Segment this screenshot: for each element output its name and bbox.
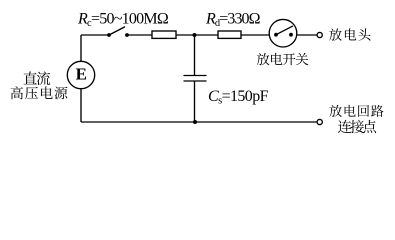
label discharge switch "放电开关" [257, 53, 309, 65]
node B junction dot on bottom rail [193, 120, 197, 124]
wire left rail bottom: source E down to bottom rail [80, 89, 82, 122]
discharge switch S2: circle with open contacts and blade [269, 19, 297, 47]
label high-voltage source "高压电源" [11, 86, 68, 99]
terminal: discharge return connection point (open circle) [317, 119, 322, 124]
wire capacitor branch lower [194, 81, 196, 122]
resistor Rc body [152, 31, 176, 38]
wire: Rd to discharge switch [241, 34, 270, 36]
svg-text:E: E [76, 64, 87, 83]
node A junction dot [193, 33, 197, 37]
label discharge tip "放电头" [329, 28, 370, 40]
wire: discharge switch to discharge tip terminal [297, 34, 317, 36]
wire: switch to Rc [127, 34, 152, 36]
wire: Rc to node A [176, 34, 218, 36]
svg-text:Rc=50~100MΩ: Rc=50~100MΩ [77, 11, 169, 30]
capacitor Cs plates [184, 76, 206, 82]
wire top rail: left corner to charging switch [81, 34, 109, 36]
svg-text:Cs=150pF: Cs=150pF [208, 88, 269, 107]
terminal: discharge tip (open circle) [317, 32, 322, 37]
source E circle [67, 61, 94, 88]
wire capacitor branch upper [194, 35, 196, 76]
label DC "直流" [23, 71, 50, 85]
resistor Rd body [218, 31, 241, 38]
wire bottom rail [81, 121, 317, 123]
label discharge loop "放电回路" [330, 105, 384, 117]
charging switch K1 (open blade with contact dots) [107, 27, 129, 37]
svg-text:Rd=330Ω: Rd=330Ω [205, 11, 261, 30]
wire left rail top: corner down to source E [80, 35, 82, 61]
label connection point "连接点" [338, 120, 376, 133]
